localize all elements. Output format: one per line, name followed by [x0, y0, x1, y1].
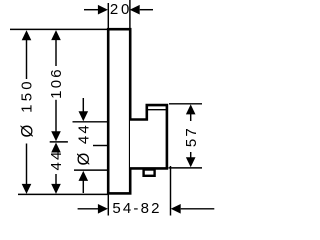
svg-text:150: 150 [19, 78, 36, 113]
svg-text:106: 106 [48, 67, 65, 99]
svg-text:54-82: 54-82 [112, 200, 161, 217]
svg-text:20: 20 [110, 1, 132, 18]
svg-text:57: 57 [183, 126, 200, 147]
svg-text:44: 44 [48, 149, 65, 170]
svg-text:44: 44 [76, 123, 93, 144]
svg-text:Ø: Ø [75, 150, 93, 165]
svg-text:Ø: Ø [18, 122, 36, 137]
